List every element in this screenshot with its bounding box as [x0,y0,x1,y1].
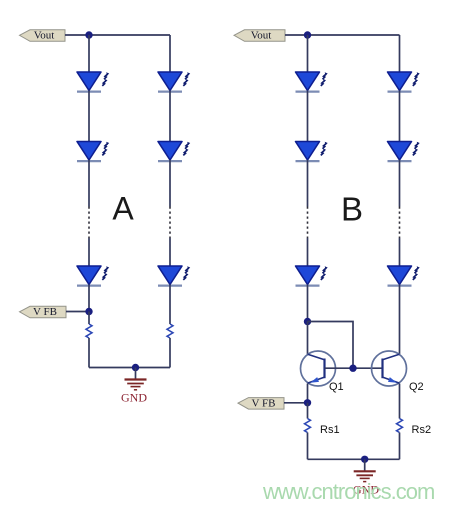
svg-text:Rs1: Rs1 [320,424,340,436]
junction node A ground [132,364,139,371]
port tag V FB (circuit B) [238,397,284,409]
port tag Vout (circuit B) [234,30,285,42]
svg-text:V FB: V FB [33,306,57,318]
wire [88,160,90,207]
junction node base tie [349,365,356,372]
ground symbol B [354,459,376,481]
wire B right string down [399,35,401,72]
port tag Vout (circuit A) [20,30,66,42]
wire [169,91,171,142]
svg-text:A: A [112,191,134,227]
LED D1 [77,72,109,92]
wire Vout tag to node B [285,34,308,36]
LED D4 [158,72,190,92]
wire [307,238,309,266]
transistor Q1 [301,351,336,386]
wire [399,238,401,266]
transistor Q2 [372,351,407,386]
port tag V FB (circuit A) [20,306,67,318]
resistor Rs1 [305,419,311,433]
junction node B feedback [304,399,311,406]
LED D9 [296,266,328,286]
wire [307,285,309,322]
wire [399,91,401,142]
wire [307,403,309,419]
LED D10 [388,72,420,92]
svg-text:www.cntronics.com: www.cntronics.com [262,479,434,504]
wire dotted continuation B left [307,207,309,239]
wire A left top [88,35,90,72]
LED D6 [158,266,190,286]
LED D3 [77,266,109,286]
LED D7 [296,72,328,92]
wire dotted continuation B right [399,207,401,239]
resistor Rs2 [397,419,403,433]
wire [169,285,171,325]
wire Q2 emitter down [399,384,401,419]
wire dotted continuation A left [88,207,90,239]
wire [169,160,171,207]
wire [88,338,90,368]
wire top rail A [89,34,170,36]
wire [307,35,309,72]
ground symbol A [125,368,147,390]
svg-text:Q2: Q2 [409,381,424,393]
wire [399,433,401,460]
wire [307,91,309,142]
wire [399,160,401,207]
wire [88,312,90,325]
wire bottom rail A [89,367,170,369]
resistor A left [86,324,92,338]
wire A right string down [169,35,171,72]
LED D2 [77,142,109,162]
wire [88,91,90,142]
svg-text:Q1: Q1 [329,381,344,393]
wire base rail [353,367,383,369]
wire V FB tag to node [66,311,89,313]
svg-text:B: B [341,191,363,228]
svg-text:Vout: Vout [251,30,272,42]
LED D11 [388,142,420,162]
svg-text:Vout: Vout [34,30,55,42]
wire [307,322,309,355]
wire Vout tag to node [65,34,89,36]
junction node B top [304,31,311,38]
wire [307,433,309,460]
svg-text:V FB: V FB [252,397,276,409]
wire [88,238,90,266]
LED D8 [296,142,328,162]
LED D5 [158,142,190,162]
junction node A feedback [85,308,92,315]
wire [307,160,309,207]
wire Q1 emitter down [307,384,309,403]
wire V FB tag to node B [284,402,308,404]
wire dotted continuation A right [169,207,171,239]
junction node A top [85,31,92,38]
junction node B collector tie [304,318,311,325]
wire [169,338,171,368]
wire collector-base strap [308,322,354,369]
svg-text:Rs2: Rs2 [412,424,432,436]
wire [399,285,401,355]
wire bottom rail B [308,458,400,460]
resistor A right [167,324,173,338]
wire Q1 base [325,367,354,369]
wire top rail B [308,34,400,36]
wire [169,238,171,266]
svg-text:GND: GND [121,391,147,405]
wire [88,285,90,312]
LED D12 [388,266,420,286]
junction node B ground [361,456,368,463]
